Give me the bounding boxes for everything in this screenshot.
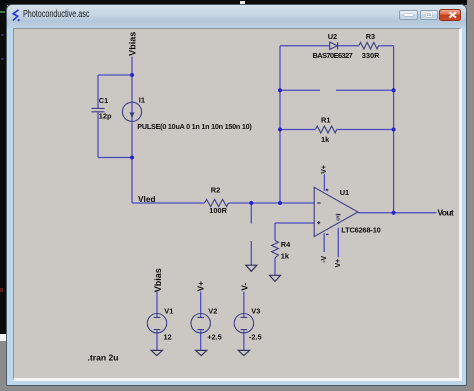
svg-text:100R: 100R [209, 206, 227, 215]
svg-text:PULSE(0 10uA 0 1n 1n 10n 150n: PULSE(0 10uA 0 1n 1n 10n 150n 10) [137, 122, 252, 131]
svg-text:-2.5: -2.5 [249, 333, 262, 342]
svg-text:U2: U2 [328, 32, 337, 41]
svg-text:Vbias: Vbias [153, 268, 163, 292]
svg-text:1k: 1k [281, 251, 290, 260]
svg-text:330R: 330R [362, 51, 380, 60]
svg-text:R2: R2 [211, 186, 220, 195]
svg-text:V+: V+ [321, 165, 328, 174]
svg-text:-V: -V [321, 255, 328, 262]
svg-text:I1: I1 [139, 95, 145, 104]
svg-text:LTC6268-10: LTC6268-10 [341, 226, 381, 235]
svg-text:5: 5 [336, 215, 340, 222]
svg-text:U1: U1 [340, 188, 349, 197]
svg-text:Vout: Vout [437, 208, 453, 218]
svg-text:.tran 2u: .tran 2u [88, 352, 119, 362]
svg-text:Vled: Vled [138, 195, 156, 204]
svg-text:12p: 12p [99, 112, 112, 121]
svg-text:R1: R1 [321, 116, 330, 125]
svg-text:Vbias: Vbias [128, 32, 138, 56]
svg-text:R3: R3 [366, 32, 375, 41]
svg-text:V+: V+ [195, 281, 205, 292]
svg-text:+2.5: +2.5 [207, 333, 222, 342]
svg-text:V2: V2 [208, 306, 217, 315]
svg-text:V3: V3 [251, 306, 260, 315]
svg-text:BAS70E6327: BAS70E6327 [313, 51, 353, 60]
svg-text:C1: C1 [99, 96, 108, 105]
svg-text:V+: V+ [335, 259, 342, 268]
svg-text:V-: V- [239, 282, 249, 290]
svg-text:V1: V1 [164, 306, 173, 315]
svg-text:12: 12 [164, 333, 172, 342]
svg-text:1k: 1k [321, 135, 330, 144]
svg-text:R4: R4 [281, 240, 291, 249]
